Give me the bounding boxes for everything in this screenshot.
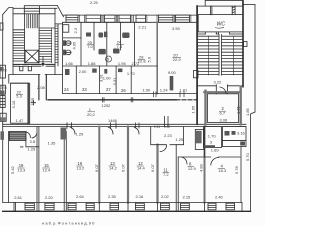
left stair inner top wall xyxy=(13,13,55,15)
room A closet hatch xyxy=(10,133,25,139)
room24a stall line xyxy=(120,22,122,50)
right stair left flight steps xyxy=(198,36,219,74)
hall bottom wall xyxy=(9,74,63,76)
svg-text:1.81: 1.81 xyxy=(179,88,188,93)
right shaft 2 xyxy=(232,6,235,15)
svg-text:27: 27 xyxy=(106,87,111,92)
svg-text:24: 24 xyxy=(64,87,69,92)
left stair well X box xyxy=(25,50,39,63)
window W10 xyxy=(226,203,235,210)
room A closet box xyxy=(9,132,26,141)
room 1.70-3 box xyxy=(204,127,222,148)
wc suite sub box xyxy=(223,141,247,147)
svg-text:2.02: 2.02 xyxy=(161,194,170,199)
partition B|C xyxy=(64,132,66,203)
passage 2.08 walls xyxy=(39,75,46,100)
room F door swing xyxy=(160,145,167,152)
partition ticks through south wall xyxy=(14,202,205,210)
svg-text:5.70: 5.70 xyxy=(245,152,250,161)
svg-text:1.47: 1.47 xyxy=(16,118,25,123)
svg-text:2.3: 2.3 xyxy=(73,27,78,33)
window W6 xyxy=(136,203,145,210)
svg-text:3.59: 3.59 xyxy=(172,26,181,31)
partition F|G xyxy=(176,145,178,203)
svg-text:4.95: 4.95 xyxy=(72,41,77,50)
corridor north wall xyxy=(48,99,150,101)
partition A|B xyxy=(37,127,39,203)
svg-text:3.91: 3.91 xyxy=(99,73,104,82)
room B closet dark xyxy=(61,128,67,140)
svg-text:6.07: 6.07 xyxy=(94,163,99,172)
wc block divider line xyxy=(63,37,81,39)
svg-text:2.40: 2.40 xyxy=(215,195,224,200)
facade wall north inner line xyxy=(63,21,197,23)
svg-text:2.16: 2.16 xyxy=(136,194,145,199)
room20 niche xyxy=(194,71,199,78)
left stair block outer walls xyxy=(13,8,55,64)
room 1.70-3 dark sill xyxy=(204,145,215,148)
svg-text:2.03: 2.03 xyxy=(1,86,7,90)
right stair handrails xyxy=(208,36,233,75)
wc suite box right xyxy=(223,127,247,141)
svg-text:н а б. р. Ф о н т а н к и д.: н а б. р. Ф о н т а н к и д. 9 0 xyxy=(42,221,95,226)
corner connector xyxy=(241,202,243,211)
row1 partition b xyxy=(106,22,108,65)
svg-text:1.89: 1.89 xyxy=(211,147,220,152)
svg-text:5.78: 5.78 xyxy=(234,165,239,174)
svg-text:2.25: 2.25 xyxy=(90,0,99,5)
room A west wall xyxy=(8,132,10,203)
window W3 xyxy=(68,203,76,210)
east parcel line lower xyxy=(251,112,256,211)
svg-text:WC: WC xyxy=(217,22,226,28)
right stair east wall xyxy=(242,1,244,87)
svg-text:1.88: 1.88 xyxy=(88,61,97,66)
svg-text:1.65: 1.65 xyxy=(236,105,241,114)
row2 partition 23|27 xyxy=(99,66,101,94)
hall door leafs xyxy=(20,66,23,70)
svg-text:26: 26 xyxy=(121,88,126,93)
svg-text:4.83: 4.83 xyxy=(199,163,204,172)
row1 partition c xyxy=(134,22,136,66)
left stair bay inner lines xyxy=(24,8,39,11)
row1/row2 divider wall xyxy=(63,65,158,67)
partition D|E xyxy=(127,127,129,203)
right stair stringer xyxy=(219,35,222,76)
toilet 2 xyxy=(62,50,71,56)
svg-text:2.03: 2.03 xyxy=(1,69,7,73)
room25 stall line xyxy=(93,22,95,50)
svg-text:1.70: 1.70 xyxy=(208,134,217,139)
partition C|D xyxy=(98,127,100,203)
left stair upper flight steps xyxy=(27,14,38,28)
wc room box xyxy=(198,15,243,32)
row1 partition a xyxy=(80,22,82,65)
room2 interior box xyxy=(208,94,239,123)
svg-text:3.31: 3.31 xyxy=(112,77,117,86)
right landing doorway ticks xyxy=(216,85,227,94)
right block: top protrusion box xyxy=(205,0,243,6)
upper rooms south wall xyxy=(63,93,196,95)
svg-text:1468: 1468 xyxy=(108,118,118,123)
room G hall closet xyxy=(195,129,203,149)
roofline right of stair xyxy=(41,5,64,16)
east connector line xyxy=(243,4,255,6)
left edge box 2 xyxy=(0,65,5,78)
svg-text:2.61: 2.61 xyxy=(14,195,23,200)
hatched shaft right of stair xyxy=(55,26,58,62)
facade window 7 xyxy=(176,15,190,22)
south wall outer line xyxy=(3,210,251,212)
svg-text:2.00: 2.00 xyxy=(79,69,88,74)
wc fixtures xyxy=(225,131,230,136)
right landing south wall xyxy=(198,85,243,87)
svg-text:1252: 1252 xyxy=(102,103,112,108)
svg-text:9.00: 9.00 xyxy=(168,70,177,75)
row2 partition 26|hall xyxy=(130,66,132,94)
svg-text:1.70: 1.70 xyxy=(127,71,136,76)
partition right of room22 xyxy=(28,83,30,124)
svg-text:1.24: 1.24 xyxy=(160,88,169,93)
facade window 1 xyxy=(66,15,78,22)
svg-text:23: 23 xyxy=(82,87,87,92)
svg-text:3.16: 3.16 xyxy=(237,131,246,136)
left stair well walls xyxy=(25,14,39,63)
wc room south wall with doors xyxy=(198,33,243,35)
left edge box 3b hatched xyxy=(0,96,5,108)
svg-text:1.02: 1.02 xyxy=(164,125,170,129)
svg-text:2.72: 2.72 xyxy=(132,61,141,66)
svg-text:3.22: 3.22 xyxy=(214,80,223,85)
row2 fixtures xyxy=(65,69,70,75)
outline top-left chamfer xyxy=(3,8,13,15)
svg-text:2.21: 2.21 xyxy=(138,24,147,29)
svg-text:1.00: 1.00 xyxy=(103,75,112,80)
svg-text:6.07: 6.07 xyxy=(121,163,126,172)
svg-text:2.64: 2.64 xyxy=(76,194,85,199)
window W7 xyxy=(161,203,170,210)
svg-text:1.11: 1.11 xyxy=(154,125,160,129)
svg-text:1.85: 1.85 xyxy=(245,107,250,116)
svg-text:2.23: 2.23 xyxy=(164,133,173,138)
stair block bottom wall xyxy=(13,65,55,67)
svg-text:1.66: 1.66 xyxy=(65,61,74,66)
svg-text:2.20: 2.20 xyxy=(45,195,54,200)
upper rooms west wall xyxy=(62,22,64,93)
hinge dots xyxy=(20,146,21,147)
corridor south wall upper line xyxy=(3,123,246,125)
left stair mid landing lines xyxy=(13,28,55,30)
svg-text:3.10: 3.10 xyxy=(11,100,16,109)
svg-text:1.55: 1.55 xyxy=(30,97,35,106)
svg-text:3.06: 3.06 xyxy=(220,118,229,123)
west connector line xyxy=(197,5,205,7)
room20 west wall xyxy=(156,22,158,93)
window W4 xyxy=(86,203,94,210)
svg-text:2.15: 2.15 xyxy=(183,195,192,200)
facade window jamb ticks xyxy=(79,15,190,22)
rooms G H top wall xyxy=(178,127,240,157)
svg-text:3.8: 3.8 xyxy=(30,139,36,144)
cross symbol xyxy=(31,101,35,105)
svg-text:2.08: 2.08 xyxy=(37,85,46,90)
svg-text:1.25: 1.25 xyxy=(175,137,184,142)
east parcel line upper xyxy=(254,5,256,113)
room H east wall xyxy=(240,147,242,203)
svg-text:1.95: 1.95 xyxy=(118,61,127,66)
window W8 xyxy=(181,203,190,210)
room2 walls xyxy=(204,91,206,125)
stair east wall bump xyxy=(244,42,248,47)
svg-text:5.3: 5.3 xyxy=(16,94,22,99)
door swings corridor xyxy=(27,132,31,138)
room20 east wall / right block west wall xyxy=(196,6,198,124)
row2 partition 24|23 xyxy=(75,66,77,94)
room F door leaf xyxy=(165,117,169,127)
small room above room22 xyxy=(9,75,28,84)
facade window 2 xyxy=(86,15,101,22)
svg-text:1.65: 1.65 xyxy=(191,105,196,114)
left stair entry arrow xyxy=(42,57,44,65)
facade wall north outer line xyxy=(64,14,197,16)
room 22 box xyxy=(11,83,29,123)
left stair bay window top xyxy=(24,6,39,14)
room20 flue xyxy=(170,76,174,90)
svg-text:5.0: 5.0 xyxy=(146,56,151,62)
small shaft right of stair xyxy=(55,24,62,66)
partition G|H xyxy=(204,127,206,203)
left edge box 1 xyxy=(0,23,3,30)
toilet 1 xyxy=(62,40,71,46)
room F ante walls xyxy=(151,127,184,145)
right shaft 1 xyxy=(210,6,212,15)
window W2 xyxy=(45,203,54,210)
svg-text:1.29: 1.29 xyxy=(27,147,36,152)
circled mark xyxy=(106,56,112,62)
svg-text:2.35: 2.35 xyxy=(108,194,117,199)
facade window 3 xyxy=(105,15,116,22)
facade window 6 xyxy=(159,15,174,22)
south wall inner line xyxy=(3,201,242,203)
wc shower tray xyxy=(63,25,69,33)
svg-text:5.42: 5.42 xyxy=(10,165,15,174)
window W1 xyxy=(25,203,34,210)
row2 partition 27|26 xyxy=(115,66,117,94)
partition E|F xyxy=(156,145,158,203)
window W9 xyxy=(208,203,216,210)
svg-text:1.29: 1.29 xyxy=(76,132,85,137)
right stair right flight steps xyxy=(222,36,243,74)
fraction bars xyxy=(16,45,226,173)
corridor north wall dashed part xyxy=(150,99,176,101)
left edge box 4 xyxy=(0,113,6,121)
corridor south wall lower line xyxy=(3,126,246,128)
svg-text:1.50: 1.50 xyxy=(143,88,152,93)
svg-text:20,2: 20,2 xyxy=(87,112,96,117)
svg-text:6.07: 6.07 xyxy=(150,163,155,172)
left edge dark cluster xyxy=(0,131,4,140)
left stair handrail line xyxy=(51,28,53,63)
left stair left flight steps xyxy=(13,32,25,61)
window W5 xyxy=(110,203,119,210)
facade window 5 xyxy=(136,15,146,22)
svg-text:1.35: 1.35 xyxy=(48,141,57,146)
left edge box 3 xyxy=(0,85,5,94)
left stair right flight steps xyxy=(39,31,52,62)
west boundary wall xyxy=(2,15,4,203)
facade window 4 xyxy=(119,15,131,22)
room A vestibule wall xyxy=(26,132,39,147)
